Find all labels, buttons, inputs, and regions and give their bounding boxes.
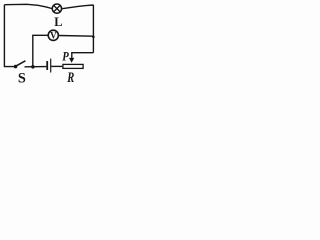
svg-text:P: P xyxy=(62,51,69,64)
svg-text:V: V xyxy=(50,30,57,40)
svg-text:L: L xyxy=(54,15,62,29)
svg-text:R: R xyxy=(66,69,74,84)
svg-text:S: S xyxy=(18,71,26,85)
